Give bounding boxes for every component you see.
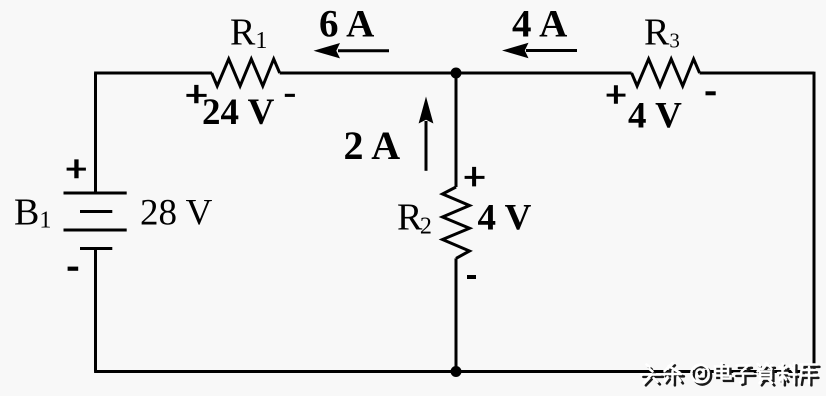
svg-text:2 A: 2 A [344,123,401,168]
polarity minus at R2 [467,275,476,279]
polarity plus at R3 [607,85,626,104]
current arrow 6 A head [314,43,341,58]
battery B1 plate long lower [64,229,127,232]
node B junction dot [451,366,462,377]
battery B1 plate long top [64,192,127,195]
current arrow 4 A shaft [526,49,577,52]
svg-text:B1: B1 [14,192,51,234]
resistor R1 zigzag [212,59,280,86]
current arrow 4 A head [502,43,529,58]
current arrow 2 A shaft [425,121,428,171]
svg-text:4 V: 4 V [628,96,682,137]
node A junction dot [451,68,462,79]
battery B1 plate short bottom [80,247,112,250]
svg-text:24 V: 24 V [202,92,275,133]
polarity plus at R2 [465,167,485,187]
polarity plus at R1 [186,85,206,103]
battery B1 plate short upper [80,210,112,213]
watermark shadow 头条@电子资料库 [643,365,819,385]
polarity minus at R1 [285,94,295,97]
svg-text:R1: R1 [230,12,267,55]
wire R2 bottom to node B [455,258,458,371]
polarity minus at battery [68,267,79,271]
wire battery bottom stem [94,249,97,372]
svg-text:4 A: 4 A [512,3,567,46]
polarity minus at R3 [706,91,716,95]
current arrow 2 A head [419,97,434,124]
resistor R3 zigzag [632,59,700,86]
wire top R1 to node A [280,72,456,75]
wire bottom [94,370,815,373]
wire left riser (top-left corner to battery top) [94,73,97,193]
svg-text:28 V: 28 V [140,193,213,234]
svg-text:6 A: 6 A [319,3,374,46]
wire right edge [813,72,816,372]
svg-text:R2: R2 [397,197,432,240]
watermark 头条@电子资料库 white overlay [641,363,817,383]
wire top B1 to R1 [94,72,212,75]
current arrow 6 A shaft [338,49,389,52]
svg-text:4 V: 4 V [478,198,532,239]
wire node A to R2 top [455,73,458,187]
svg-text:R3: R3 [644,12,680,54]
wire top node A to R3 [456,72,632,75]
resistor R2 zigzag [443,187,470,258]
wire top R3 to top-right corner [700,72,814,75]
polarity plus at battery [67,159,86,178]
